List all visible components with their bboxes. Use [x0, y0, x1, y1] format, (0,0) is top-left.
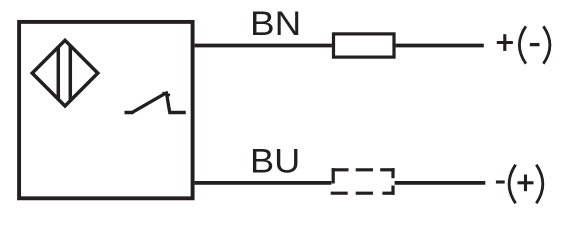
switch NO contact: tick at blade tip: [162, 93, 170, 95]
load resistor (solid rectangle): [334, 34, 395, 57]
svg-text:BU: BU: [250, 143, 300, 181]
wire BU from box to dashed load: [195, 181, 332, 185]
terminal -(+) : right parenthesis: [536, 165, 543, 204]
terminal +(-) : minus in parens: [530, 43, 540, 46]
switch NO contact: down stroke: [166, 91, 170, 112]
wire BU from dashed load to terminal: [395, 181, 486, 185]
wire BN from load to terminal: [396, 44, 484, 48]
terminal -(+) : plus in parens: [518, 175, 534, 192]
load (dashed) bottom edge dashes: [331, 192, 395, 195]
switch NO contact: right lead: [168, 111, 186, 115]
proximity sensor symbol: diamond: [32, 40, 98, 106]
sensor body (rectangle): [19, 22, 193, 198]
terminal -(+) : minus sign: [496, 180, 505, 183]
terminal -(+) : left parenthesis: [509, 165, 516, 204]
terminal +(-) : right parenthesis: [543, 26, 550, 63]
load (dashed) right edge dashes: [391, 168, 394, 195]
svg-text:BN: BN: [250, 5, 301, 43]
terminal +(-) : left parenthesis: [519, 26, 526, 63]
proximity sensor symbol: left vertical bar: [57, 46, 61, 100]
proximity sensor symbol: right vertical bar: [69, 45, 73, 102]
load (dashed alternative rectangle) top edge dashes: [332, 168, 395, 171]
wire BN from box to load: [195, 44, 332, 48]
switch NO contact: left lead: [125, 111, 134, 115]
switch NO contact: blade: [132, 94, 165, 113]
load (dashed) left edge dash: [332, 168, 335, 183]
terminal +(-) : plus sign: [497, 34, 513, 51]
